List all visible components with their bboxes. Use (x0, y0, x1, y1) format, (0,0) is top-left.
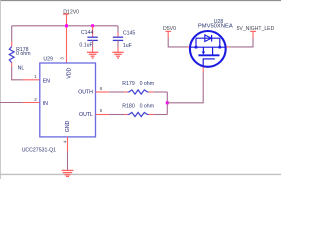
svg-text:OUTL: OUTL (79, 112, 93, 118)
pin stub R178 top (11, 42, 13, 47)
svg-text:R180: R180 (122, 103, 135, 109)
svg-text:0 ohm: 0 ohm (16, 51, 30, 57)
gate driver U29 box (40, 63, 96, 137)
wire C145 to ground (117, 40, 119, 47)
svg-text:3: 3 (60, 57, 66, 60)
wire rail left drop (11, 26, 13, 42)
transistor U28 (190, 31, 226, 67)
svg-text:EN: EN (43, 78, 50, 84)
wire C144 to ground (91, 40, 93, 47)
svg-text:PMV50XNEA: PMV50XNEA (198, 24, 233, 30)
svg-text:5: 5 (100, 108, 103, 114)
junction C144 (91, 24, 94, 27)
pin stub source (187, 46, 191, 48)
wire node to gate (167, 72, 203, 103)
svg-text:1: 1 (34, 74, 37, 80)
pin stub OUTL (96, 113, 110, 115)
pin stub C144 top (91, 26, 93, 37)
svg-text:6: 6 (100, 86, 103, 92)
resistor R179 (128, 91, 129, 93)
capacitor C144 (87, 36, 97, 39)
svg-text:C144: C144 (81, 30, 94, 36)
wire node vertical (166, 92, 168, 115)
svg-text:2: 2 (34, 97, 37, 103)
pin stub C145 top (117, 33, 119, 36)
ground C144 (91, 47, 93, 52)
pin stub EN (23, 79, 40, 81)
svg-text:1uF: 1uF (123, 43, 132, 49)
svg-text:0 ohm: 0 ohm (140, 103, 154, 109)
svg-text:C145: C145 (123, 30, 136, 36)
junction node (166, 101, 169, 104)
svg-text:OUTH: OUTH (78, 89, 93, 95)
svg-text:GND: GND (65, 120, 71, 132)
power symbol 5V_NIGHT_LED (252, 31, 254, 38)
wire R179 to node (153, 91, 167, 93)
sheet border top (0, 0, 281, 2)
sheet border bottom (0, 173, 281, 176)
svg-text:U29: U29 (43, 57, 53, 63)
svg-text:VDD: VDD (67, 67, 73, 78)
wire R180 to node (153, 113, 167, 115)
pin stub GND (66, 137, 68, 151)
ground C145 (117, 47, 119, 52)
pin stub R180 right (149, 113, 154, 115)
svg-text:R179: R179 (122, 81, 135, 87)
pin stub R178 bottom (11, 63, 13, 67)
wire GND to ground (66, 151, 68, 170)
wire drain to 5V_NIGHT_LED (229, 38, 253, 47)
wire D5V0 to transistor (168, 38, 187, 47)
ground U29 (62, 169, 74, 172)
pin stub gate (202, 66, 204, 72)
sheet border left (0, 0, 1, 179)
wire VDD drop (65, 26, 67, 63)
svg-text:IN: IN (43, 101, 48, 107)
pin stub drain (225, 46, 229, 48)
svg-text:NL: NL (18, 66, 25, 72)
wire D12V0 rail (12, 25, 118, 27)
resistor R178 (9, 47, 14, 63)
svg-text:0 ohm: 0 ohm (140, 81, 154, 87)
wire rail corner to C145 (117, 26, 119, 34)
wire OUTH to R179 (109, 91, 124, 93)
pin stub OUTH (96, 91, 110, 93)
svg-text:UCC27531-Q1: UCC27531-Q1 (22, 148, 56, 154)
pin stub R179 right (149, 91, 154, 93)
resistor R180 (128, 113, 129, 115)
pin stub IN (23, 101, 40, 103)
junction D12V0 (65, 24, 68, 27)
svg-text:0.1uF: 0.1uF (79, 43, 92, 49)
wire OUTL to R180 (109, 113, 124, 115)
wire R178 to EN (12, 67, 23, 80)
capacitor C145 (113, 36, 123, 39)
svg-text:5V_NIGHT_LED: 5V_NIGHT_LED (237, 26, 275, 32)
wire IN from sheet edge (0, 101, 23, 103)
